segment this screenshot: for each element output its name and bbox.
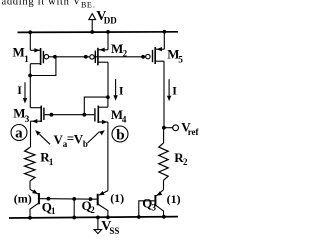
svg-text:M: M [111, 41, 123, 56]
svg-text:b: b [83, 139, 88, 149]
wire: M5 drain down to Vref node [163, 61, 165, 128]
svg-text:M: M [13, 45, 25, 60]
M4 label [111, 107, 127, 125]
svg-text:3: 3 [152, 202, 157, 212]
svg-text:I: I [172, 83, 177, 97]
junction: M1 feed on VDD rail [28, 30, 32, 34]
current arrow I (left branch) [23, 82, 27, 103]
junction: base tie on rail [72, 216, 76, 220]
junction: Q1 base [47, 197, 51, 201]
node b [112, 126, 128, 144]
junction: Vref tap [162, 126, 166, 130]
junction: M1 gate on bus [53, 55, 57, 59]
annotation arrow to node b [88, 130, 105, 143]
wire: VDD rail to M2 source [107, 32, 109, 50]
transistor M4 (NMOS) [95, 106, 108, 125]
svg-text:(m): (m) [14, 192, 32, 206]
M1 label [13, 45, 30, 64]
VSS supply symbol [94, 217, 101, 233]
svg-text:2: 2 [123, 49, 128, 59]
Q1 label [42, 199, 56, 216]
wire: M3 source down to R1 (node a) [30, 121, 32, 147]
VDD supply symbol [89, 14, 96, 33]
svg-text:DD: DD [104, 15, 117, 25]
svg-text:I: I [119, 83, 124, 97]
wire: VSS rail [9, 217, 178, 218]
annotation arrow to node a [35, 130, 50, 144]
wire: M1 drain down to M3 drain [29, 64, 31, 76]
current arrow I (right branch) [167, 79, 171, 101]
svg-text:3: 3 [25, 114, 30, 124]
M3 label [13, 106, 30, 124]
junction: Q2 collector on rail [106, 215, 110, 219]
transistor Q1 (PNP) [30, 189, 48, 217]
wire: Q1 base to Q2 base [48, 198, 96, 201]
svg-text:5: 5 [178, 54, 183, 64]
junction: Q1 collector on rail [28, 216, 32, 220]
junction: Q3 base on rail [137, 215, 141, 219]
svg-text:4: 4 [122, 115, 127, 125]
junction: M5 feed on rail [163, 30, 167, 34]
svg-text:a: a [15, 126, 23, 142]
svg-text:b: b [116, 128, 124, 144]
wire: mirror node down to M4 drain [107, 97, 109, 107]
M2 label [111, 41, 128, 59]
wire: PMOS gate bus [49, 56, 146, 58]
junction: gate bus to mirror node [82, 113, 86, 117]
wire: M4 source down to Q2 emitter (node b) [107, 122, 109, 191]
junction: M2 drain / M4 drain node [106, 95, 110, 99]
svg-text:ref: ref [188, 127, 200, 137]
junction: bus node before M5 gate [141, 55, 145, 59]
junction: node on gate bus [50, 113, 54, 117]
junction: M1 drain node [28, 74, 32, 78]
svg-text:I: I [17, 83, 22, 97]
R2 label [174, 150, 188, 167]
label Va = Vb [54, 131, 88, 150]
wire: R1 to Q1 emitter [29, 181, 31, 190]
wire: R2 to Q3 emitter [163, 180, 165, 190]
svg-text:2: 2 [183, 157, 188, 167]
wire: VDD rail to M5 source [163, 32, 165, 49]
VDD label [96, 9, 117, 25]
wire: base tie down to VSS rail [73, 199, 75, 218]
transistor M1 (PMOS, diode-connected) [30, 48, 48, 65]
svg-text:BE: BE [81, 0, 92, 9]
Vref label [181, 120, 199, 137]
junction: M2 feed on rail [106, 30, 110, 34]
Q3 label [142, 195, 156, 212]
VSS label [101, 219, 119, 236]
svg-text:adding it with V: adding it with V [2, 0, 82, 8]
Q2 label [82, 198, 96, 215]
node a [11, 125, 27, 142]
transistor M3 (NMOS) [30, 106, 44, 124]
R1 label [40, 150, 54, 167]
transistor Q2 (PNP) [98, 191, 108, 218]
current arrow I (middle branch) [113, 79, 117, 101]
resistor R2 [159, 143, 168, 180]
svg-text:1: 1 [51, 206, 56, 216]
svg-text:(1): (1) [167, 192, 181, 206]
svg-text:M: M [13, 106, 25, 121]
wire: M1 gate-drain connection [30, 57, 56, 76]
svg-text:1: 1 [49, 157, 54, 167]
wire: Vref tap to terminal [164, 127, 173, 129]
junction: VSS stem on rail [96, 216, 100, 220]
transistor M2 (PMOS) [90, 48, 108, 66]
svg-text:.: . [93, 0, 95, 9]
resistor R1 [25, 147, 35, 181]
wire: drain node left and down to NMOS gate bus [84, 97, 108, 115]
wire: M3-M4 gate bus [45, 114, 95, 116]
svg-text:SS: SS [109, 226, 119, 236]
wire: VDD rail [18, 31, 179, 34]
transistor M5 (PMOS) [146, 47, 165, 64]
Vref terminal [173, 125, 179, 131]
junction: Q2 base [89, 197, 93, 201]
svg-text:2: 2 [90, 205, 95, 215]
svg-text:(1): (1) [110, 191, 124, 205]
svg-text:1: 1 [24, 54, 29, 64]
junction: VDD stem on rail [90, 30, 94, 34]
M5 label [167, 47, 183, 65]
wire: VDD rail to M1 source [29, 32, 31, 50]
junction: bus node before M2 gate [84, 55, 88, 59]
transistor Q3 (PNP) [139, 190, 164, 217]
wire: Vref node to R2 [163, 128, 165, 143]
junction: base tie [72, 197, 76, 201]
wire: M2 drain down [107, 62, 109, 97]
junction: Q3 collector on rail [162, 215, 166, 219]
